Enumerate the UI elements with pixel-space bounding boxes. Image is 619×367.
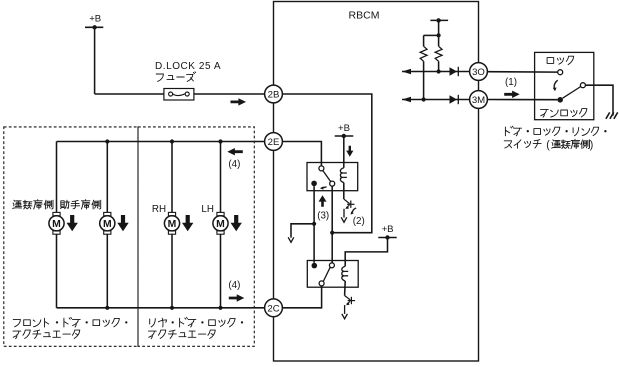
svg-text:(4): (4) <box>228 159 240 170</box>
svg-text:LH: LH <box>201 204 214 215</box>
svg-text:3O: 3O <box>472 67 485 78</box>
svg-text:): ) <box>590 139 594 151</box>
svg-text:RH: RH <box>152 204 166 215</box>
svg-text:2E: 2E <box>268 137 280 148</box>
svg-text:D.LOCK 25 A: D.LOCK 25 A <box>155 61 221 72</box>
svg-text:+B: +B <box>338 123 350 134</box>
svg-text:(3): (3) <box>317 211 329 222</box>
svg-text:(1): (1) <box>505 77 517 88</box>
svg-text:2B: 2B <box>268 90 280 101</box>
svg-text:M: M <box>168 219 177 230</box>
svg-text:RBCM: RBCM <box>349 10 380 22</box>
svg-text:+B: +B <box>382 224 394 235</box>
svg-text:2C: 2C <box>267 303 279 314</box>
svg-text:3M: 3M <box>472 95 485 106</box>
svg-text:(2): (2) <box>353 216 365 227</box>
svg-text:(4): (4) <box>228 280 240 291</box>
svg-text:M: M <box>216 219 225 230</box>
svg-text:(: ( <box>546 139 550 151</box>
svg-text:M: M <box>103 219 112 230</box>
svg-text:+B: +B <box>89 14 101 25</box>
svg-text:M: M <box>52 219 61 230</box>
